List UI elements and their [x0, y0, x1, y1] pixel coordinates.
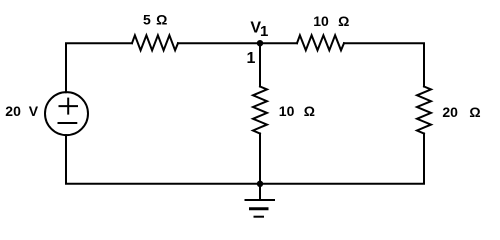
resistor R1 5ohm zigzag: [132, 35, 178, 50]
svg-text:20 Ω: 20 Ω: [442, 104, 480, 120]
node 1 junction dot: [257, 40, 263, 46]
svg-text:10 Ω: 10 Ω: [279, 103, 315, 119]
svg-text:1: 1: [260, 23, 268, 40]
wire top-middle segment: [178, 42, 297, 44]
plus sign of source: [60, 105, 78, 107]
wire node V1 down to R3: [259, 43, 261, 86]
wire right-bottom segment: [66, 134, 424, 184]
voltage source V 20V circle: [45, 92, 88, 135]
svg-text:5 Ω: 5 Ω: [143, 12, 167, 28]
ground bar 2: [251, 207, 268, 210]
ground stem: [259, 184, 261, 200]
svg-text:20 V: 20 V: [5, 103, 38, 119]
ground bar 3: [255, 216, 264, 218]
svg-text:1: 1: [247, 50, 256, 67]
resistor R3 10ohm vertical zigzag: [253, 87, 267, 134]
minus sign of source: [59, 122, 77, 124]
wire top-left segment: [66, 43, 132, 92]
resistor R4 20ohm vertical zigzag: [417, 87, 431, 134]
ground junction dot: [257, 181, 263, 187]
resistor R2 10ohm horizontal zigzag: [297, 35, 344, 50]
wire R3 to bottom: [259, 134, 261, 184]
svg-text:10 Ω: 10 Ω: [313, 13, 349, 29]
ground bar 1: [246, 199, 275, 201]
wire top-right segment: [344, 43, 424, 86]
